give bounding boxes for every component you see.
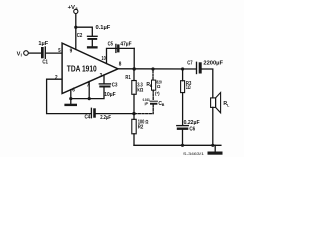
label (*) bbox=[155, 91, 160, 96]
dashed wire to RB bbox=[152, 71, 154, 81]
svg-text:R1: R1 bbox=[125, 75, 130, 81]
feedback node junction bbox=[132, 112, 135, 115]
capacitor CB (optional) bbox=[150, 100, 157, 102]
wire +Vs down to pin 9 bbox=[75, 14, 77, 50]
svg-text:5: 5 bbox=[58, 48, 60, 54]
svg-text:9: 9 bbox=[70, 49, 73, 55]
svg-text:2: 2 bbox=[55, 75, 58, 81]
pin 2 label bbox=[55, 75, 58, 81]
wire speaker to rail bbox=[212, 107, 214, 145]
capacitor C7 bbox=[196, 62, 198, 73]
wire C3 down to ground bus bbox=[71, 88, 104, 99]
label 2200uF bbox=[203, 61, 223, 67]
svg-text:C2: C2 bbox=[77, 33, 83, 39]
svg-text:i: i bbox=[21, 52, 22, 57]
wire C6 to rail bbox=[182, 130, 184, 145]
input terminal Vi bbox=[24, 51, 29, 56]
svg-text:10µF: 10µF bbox=[104, 92, 116, 98]
label 820 Ohm bbox=[156, 79, 162, 89]
svg-text:kΩ: kΩ bbox=[137, 88, 143, 94]
label C5 bbox=[108, 42, 113, 48]
svg-text:Ω: Ω bbox=[157, 84, 161, 89]
capacitor C6 bbox=[177, 125, 189, 127]
resistor RB (optional) bbox=[152, 80, 156, 90]
svg-text:C6: C6 bbox=[189, 127, 195, 133]
pin 8 label bbox=[119, 62, 122, 68]
label R2 bbox=[138, 124, 144, 130]
svg-text:C4: C4 bbox=[85, 115, 91, 121]
pin 3 wire bbox=[103, 75, 105, 84]
svg-text:R2: R2 bbox=[138, 124, 144, 130]
resistor R1 bbox=[133, 69, 135, 81]
label 1uF bbox=[38, 41, 48, 47]
resistor R2 bbox=[133, 114, 135, 120]
pin 2 feedback wire bbox=[47, 79, 91, 113]
svg-text:47µF: 47µF bbox=[120, 42, 132, 48]
svg-text:(*): (*) bbox=[155, 91, 160, 96]
wire C2 to ground bbox=[91, 40, 93, 46]
label 0.22uF bbox=[184, 120, 200, 126]
label C6 bbox=[189, 127, 195, 133]
node C5/R1 junction bbox=[133, 67, 136, 70]
svg-text:C3: C3 bbox=[112, 83, 118, 89]
speaker RL bbox=[211, 98, 216, 108]
supply terminal +Vs bbox=[74, 9, 78, 13]
pin 6 wire bbox=[70, 90, 72, 104]
svg-text:C5: C5 bbox=[108, 42, 113, 48]
svg-text:B: B bbox=[150, 84, 153, 88]
svg-text:7: 7 bbox=[87, 83, 90, 89]
label S-3463/1 bbox=[183, 151, 205, 156]
label 2.2uF bbox=[100, 115, 111, 121]
svg-text:0.1µF: 0.1µF bbox=[96, 25, 111, 31]
svg-text:+V: +V bbox=[68, 5, 76, 11]
capacitor C4 bbox=[90, 108, 92, 117]
label +Vs bbox=[68, 5, 79, 11]
wire C1 to pin 5 bbox=[46, 52, 62, 54]
svg-text:2.2µF: 2.2µF bbox=[100, 115, 111, 121]
capacitor C2 bbox=[88, 35, 98, 37]
junction C6/rail bbox=[181, 144, 184, 147]
label 1 Ohm bbox=[186, 85, 191, 91]
label R3 bbox=[186, 81, 191, 87]
capacitor C1 bbox=[41, 47, 44, 58]
label 47uF bbox=[120, 42, 132, 48]
wire C7 to speaker bbox=[202, 69, 213, 98]
pin 6 label bbox=[72, 87, 75, 93]
wire C5 down to output node bbox=[133, 48, 135, 69]
wire rail to ground bbox=[214, 145, 216, 151]
pin 7 wire bbox=[88, 82, 90, 99]
junction speaker/rail bbox=[211, 144, 214, 147]
capacitor C3 bbox=[99, 83, 110, 85]
label C2 bbox=[77, 33, 83, 39]
svg-text:1µF: 1µF bbox=[38, 41, 48, 47]
label 3.3 kOhm bbox=[137, 82, 143, 93]
label R1 bbox=[125, 75, 130, 81]
svg-text:TDA 1910: TDA 1910 bbox=[67, 63, 97, 73]
node junction on supply wire bbox=[74, 26, 77, 29]
svg-text:B: B bbox=[162, 103, 165, 107]
label 100 Ohm bbox=[138, 119, 149, 125]
dashed wire RB to CB bbox=[152, 90, 154, 101]
dashed wire CB to feedback node bbox=[136, 105, 153, 114]
label C4 bbox=[85, 115, 91, 121]
capacitor C5 bbox=[115, 44, 117, 52]
pin 8 output wire bbox=[118, 68, 196, 70]
wire C4 to feedback node bbox=[96, 113, 134, 115]
label Vi bbox=[17, 51, 22, 57]
pin 7 label bbox=[87, 83, 90, 89]
node R3 on output wire bbox=[181, 67, 184, 70]
svg-text:2200µF: 2200µF bbox=[203, 61, 223, 67]
ground (pins 6-7) bbox=[64, 104, 77, 106]
pin 5 label bbox=[58, 48, 60, 54]
pin 10 wire bbox=[107, 48, 135, 63]
label 0.1uF bbox=[96, 25, 111, 31]
wire supply node to C2 bbox=[76, 27, 93, 36]
resistor R3 bbox=[182, 69, 184, 81]
svg-text:10: 10 bbox=[102, 56, 106, 62]
op-amp U1 TDA1910 triangle bbox=[62, 43, 118, 93]
label RL bbox=[223, 101, 230, 107]
svg-text:S-3463/1: S-3463/1 bbox=[183, 151, 205, 156]
svg-text:C1: C1 bbox=[42, 59, 48, 65]
label TDA 1910 bbox=[67, 63, 97, 73]
label C1 bbox=[42, 59, 48, 65]
ground (C2) bbox=[87, 46, 98, 48]
svg-text:1Ω: 1Ω bbox=[186, 85, 191, 91]
svg-text:8: 8 bbox=[119, 62, 122, 68]
svg-text:6: 6 bbox=[72, 87, 75, 93]
label 10uF bbox=[104, 92, 116, 98]
node on output wire for RB bbox=[151, 67, 154, 70]
pin 3 label bbox=[100, 73, 103, 79]
ground (bottom right) bbox=[208, 152, 223, 155]
pin 9 label bbox=[70, 49, 73, 55]
svg-text:C7: C7 bbox=[187, 61, 192, 67]
junction pin 7 bbox=[88, 97, 91, 100]
label C7 bbox=[187, 61, 192, 67]
junction pin 6 bbox=[69, 97, 72, 100]
label CB bbox=[158, 101, 164, 107]
pin 10 label bbox=[102, 56, 106, 62]
label C3 bbox=[112, 83, 118, 89]
label RB bbox=[146, 82, 152, 88]
bottom ground rail bbox=[134, 144, 221, 146]
wire Vi to C1 bbox=[29, 52, 41, 54]
svg-text:3: 3 bbox=[100, 73, 103, 79]
label 0.033uF bbox=[143, 98, 150, 106]
